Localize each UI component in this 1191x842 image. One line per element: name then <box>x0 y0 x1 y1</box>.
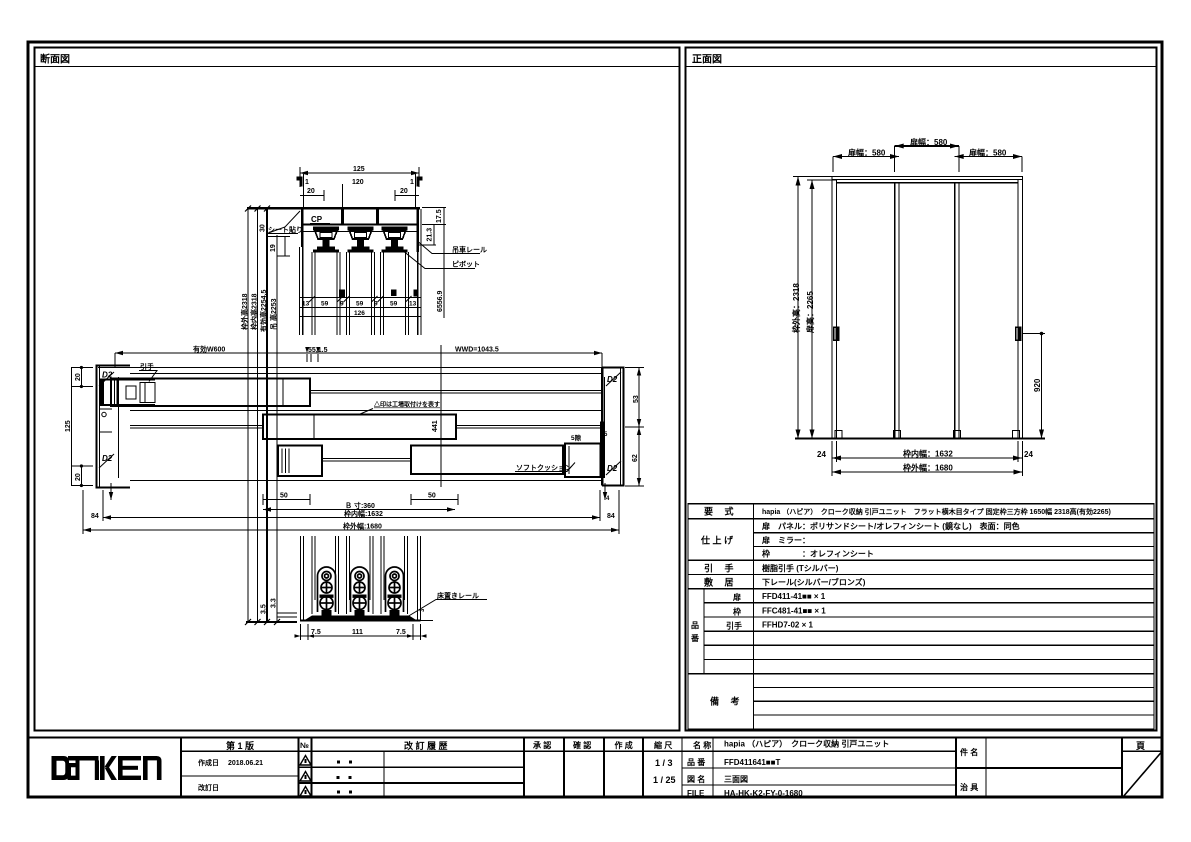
mullion 2 double line <box>954 183 956 439</box>
revision triangle 2 <box>300 772 311 782</box>
dim 1680 <box>83 529 619 531</box>
door 1 end cap line <box>282 379 284 407</box>
svg-text:図 名: 図 名 <box>687 774 705 784</box>
center section line <box>440 345 442 487</box>
door 3 guide box <box>278 446 322 477</box>
door panel 2 top cap <box>348 250 374 253</box>
svg-text:改 訂 履 歴: 改 訂 履 歴 <box>404 740 448 751</box>
svg-text:50: 50 <box>280 493 288 500</box>
svg-text:有効高2254.5: 有効高2254.5 <box>259 289 268 332</box>
right side dim line 53/62 <box>625 367 644 486</box>
svg-text:枠外高2318: 枠外高2318 <box>240 293 249 330</box>
bottom wall line <box>130 480 602 482</box>
top right dim line 580 <box>955 156 1022 158</box>
svg-text:84: 84 <box>91 513 99 520</box>
svg-text:6556.9: 6556.9 <box>437 290 444 312</box>
door frame outer <box>832 177 1023 439</box>
door panel 3 verticals <box>380 536 382 614</box>
stub extension lines above plate <box>342 184 344 207</box>
svg-text:20: 20 <box>307 188 315 195</box>
track lines row2 <box>130 425 263 427</box>
svg-text:樹脂引手 (Tシルバー): 樹脂引手 (Tシルバー) <box>762 563 839 573</box>
svg-text:扉高：2265: 扉高：2265 <box>805 291 815 334</box>
svg-text:3.5: 3.5 <box>261 604 268 614</box>
door 1 left end dark details <box>100 379 104 407</box>
svg-text:441: 441 <box>432 420 439 432</box>
top center dim line 580 <box>895 145 959 147</box>
door panel 2 verticals <box>347 252 375 335</box>
name column rows <box>682 767 956 769</box>
svg-text:FILE: FILE <box>687 789 705 798</box>
svg-text:件 名: 件 名 <box>960 747 978 757</box>
head plate <box>247 207 420 210</box>
svg-text:HA-HK-K2-FY-0-1680: HA-HK-K2-FY-0-1680 <box>724 789 803 798</box>
floor line right stub <box>421 620 434 622</box>
pocket divider line <box>130 410 602 412</box>
floor line under rail <box>300 620 421 622</box>
svg-text:有効W600: 有効W600 <box>193 345 225 354</box>
svg-text:ソフトクッション: ソフトクッション <box>516 463 572 472</box>
arrows dim125 <box>300 171 308 175</box>
svg-text:30: 30 <box>260 224 267 232</box>
track wall lower continuations <box>302 247 304 335</box>
svg-text:1: 1 <box>305 179 309 186</box>
svg-text:№: № <box>300 741 309 750</box>
bottom dim rows of head section <box>299 296 420 317</box>
svg-text:59: 59 <box>390 301 398 308</box>
door panel 1 verticals <box>312 252 340 335</box>
svg-text:20: 20 <box>400 188 408 195</box>
page cell diagonal <box>1123 752 1162 798</box>
svg-text:13: 13 <box>409 301 417 308</box>
top dim line <box>115 352 602 354</box>
dim arrows bottom <box>832 456 841 461</box>
svg-text:CP: CP <box>311 215 323 224</box>
svg-text:改訂日: 改訂日 <box>198 783 219 792</box>
height dim extension line 3 <box>266 208 268 622</box>
small dim line at 285 <box>267 237 290 257</box>
receiver dark edge <box>600 422 604 445</box>
spec table hinban rows <box>704 602 1154 604</box>
svg-text:△印は工場取付けを表す: △印は工場取付けを表す <box>373 401 440 409</box>
svg-text:治 具: 治 具 <box>960 782 978 792</box>
svg-text:FFC481-41■■ × 1: FFC481-41■■ × 1 <box>762 606 826 615</box>
foot guide 3 <box>954 431 961 439</box>
left height dim lines <box>797 177 799 439</box>
svg-text:9: 9 <box>340 301 344 308</box>
track right wall <box>417 209 420 252</box>
svg-text:枠内幅：1632: 枠内幅：1632 <box>902 449 953 459</box>
jamb left pair <box>300 536 302 620</box>
svg-text:扉幅：580: 扉幅：580 <box>968 148 1007 158</box>
right 920 dim line <box>1041 334 1043 439</box>
svg-text:Ｂ 寸:360: Ｂ 寸:360 <box>345 501 375 510</box>
svg-text:53: 53 <box>633 395 640 403</box>
door 3 plan <box>411 446 563 475</box>
handle left panel <box>833 327 840 342</box>
floor datum line left <box>246 621 297 623</box>
svg-text:扉幅：580: 扉幅：580 <box>909 137 948 147</box>
leader 吊車レール <box>419 242 481 254</box>
dim 120 ticks <box>303 174 305 207</box>
svg-text:品: 品 <box>691 621 699 630</box>
track rail profile lines <box>303 224 416 226</box>
height dim extension line 2 <box>257 208 259 622</box>
inner frame right panel (front view) <box>686 48 1157 731</box>
svg-text:引手: 引手 <box>726 621 742 631</box>
dim tick marks top <box>245 206 280 626</box>
DAIKEN logo <box>52 756 162 780</box>
bottom 1680 dim line <box>832 471 1023 473</box>
svg-text:番: 番 <box>690 633 700 643</box>
door 1 plan <box>111 379 310 407</box>
svg-text:21.3: 21.3 <box>427 228 434 242</box>
svg-text:D2: D2 <box>607 464 618 473</box>
svg-text:仕 上 げ: 仕 上 げ <box>700 535 734 546</box>
spec table remark rows <box>754 686 1155 688</box>
dim 20 right <box>395 195 419 197</box>
svg-text:20: 20 <box>75 373 82 381</box>
soft close receiver box <box>565 444 601 478</box>
svg-text:hapia （ハピア） クローク収納 引戸ユニット フラット: hapia （ハピア） クローク収納 引戸ユニット フラット横木目タイプ 固定枠… <box>762 507 1111 516</box>
svg-text:19: 19 <box>270 244 277 252</box>
svg-text:7.5: 7.5 <box>311 629 321 636</box>
bottom guide assembly 3 <box>386 567 404 616</box>
svg-text:断面図: 断面図 <box>40 53 70 66</box>
svg-text:吊車レール: 吊車レール <box>452 245 487 254</box>
track right outer extension line <box>420 209 422 335</box>
edition cell row lines <box>181 775 299 777</box>
svg-text:名 称: 名 称 <box>693 740 711 750</box>
door panel 3 verticals <box>381 252 409 335</box>
bottom dim line <box>301 624 421 640</box>
floor line <box>795 438 1045 440</box>
sheet label シート貼り <box>267 211 300 234</box>
svg-text:シート貼り: シート貼り <box>268 225 303 234</box>
track divider stub 2 <box>376 209 379 225</box>
spec table outline <box>688 504 1154 729</box>
svg-text:13: 13 <box>302 301 310 308</box>
wall clip right <box>417 177 423 187</box>
rail leader and label <box>407 600 487 618</box>
track lines row1 <box>310 390 602 392</box>
dim 1632 <box>103 517 600 519</box>
svg-text:55,1.5: 55,1.5 <box>308 347 328 354</box>
revision triangle 1 <box>300 756 311 766</box>
svg-text:D2: D2 <box>102 454 113 463</box>
svg-text:24: 24 <box>817 450 826 459</box>
svg-text:要 式: 要 式 <box>704 506 734 517</box>
svg-text:1 / 3: 1 / 3 <box>655 758 673 768</box>
leader ピボット <box>397 246 475 269</box>
svg-text:吊 高2253: 吊 高2253 <box>269 298 278 330</box>
right panel header line <box>686 66 1157 68</box>
svg-text:枠外幅:1680: 枠外幅:1680 <box>343 522 382 531</box>
door 1 handle recess <box>140 383 155 403</box>
svg-text:20: 20 <box>75 473 82 481</box>
dim 20 left <box>300 195 324 197</box>
svg-text:正面図: 正面図 <box>692 54 722 66</box>
inner frame left panel (section view) <box>35 48 680 731</box>
track left wall <box>301 209 304 247</box>
dim 50 right <box>411 499 458 501</box>
door frame head line 3 <box>837 182 1019 184</box>
svg-text:920: 920 <box>1033 378 1042 392</box>
dim 50 left <box>263 499 310 501</box>
track lines row3 <box>322 458 411 460</box>
svg-text:126: 126 <box>354 310 365 317</box>
svg-text:7.5: 7.5 <box>396 629 406 636</box>
svg-text:3.3: 3.3 <box>271 598 278 608</box>
svg-text:2018.06.21: 2018.06.21 <box>228 760 263 767</box>
revision rows <box>299 766 525 768</box>
dim arrows heights <box>796 177 801 186</box>
svg-text:枠内高2318: 枠内高2318 <box>250 293 259 330</box>
dim arrows top dims <box>895 144 904 149</box>
dim 17.5 right <box>419 208 447 319</box>
svg-text:59: 59 <box>321 301 329 308</box>
svg-text:扉 ミラー：: 扉 ミラー： <box>761 535 810 545</box>
wall top line <box>98 367 602 369</box>
break ticks 55,1.5 <box>306 354 308 362</box>
svg-text:下レール(シルバー/ブロンズ): 下レール(シルバー/ブロンズ) <box>762 577 866 587</box>
door frame inner left vertical <box>836 180 838 439</box>
left jamb <box>97 366 131 488</box>
bottom guide assembly 2 <box>351 567 369 616</box>
svg-text:枠内幅:1632: 枠内幅:1632 <box>344 509 383 518</box>
extension arrows down <box>110 483 112 500</box>
door 2 plan <box>263 415 456 440</box>
svg-text:1: 1 <box>410 179 414 186</box>
hanger roller assembly 2 <box>348 227 374 250</box>
door frame head line 2 <box>832 179 1023 181</box>
spec table hinban sub divider <box>703 589 705 674</box>
jamb right pair <box>417 536 419 620</box>
svg-text:三面図: 三面図 <box>724 775 748 784</box>
svg-text:扉幅：580: 扉幅：580 <box>847 148 886 158</box>
floor rail bar <box>304 616 417 621</box>
svg-text:引 手: 引 手 <box>704 563 734 574</box>
pivot blocks on panel edges <box>339 290 419 298</box>
title block outline <box>28 738 1162 798</box>
handle right panel <box>1015 327 1022 342</box>
svg-text:hapia （ハピア） クローク収納 引戸ユニット: hapia （ハピア） クローク収納 引戸ユニット <box>724 739 889 749</box>
svg-text:59: 59 <box>356 301 364 308</box>
svg-text:作 成: 作 成 <box>615 740 633 750</box>
svg-text:敷 居: 敷 居 <box>704 577 734 588</box>
svg-text:FFD411641■■T: FFD411641■■T <box>724 758 780 767</box>
foot guide 4 <box>1013 431 1020 439</box>
svg-text:84: 84 <box>607 513 615 520</box>
svg-text:扉: 扉 <box>732 592 741 602</box>
svg-text:5隙: 5隙 <box>571 433 582 442</box>
svg-text:床置きレール: 床置きレール <box>437 591 479 600</box>
foot guide 2 <box>894 431 901 439</box>
svg-text:確 認: 確 認 <box>573 740 591 750</box>
mullion 1 double line <box>894 183 896 439</box>
svg-text:120: 120 <box>352 179 364 186</box>
svg-text:24: 24 <box>1024 450 1033 459</box>
foot guide 1 <box>835 431 842 439</box>
door panel 3 top cap <box>382 250 408 253</box>
spec table row lines full width <box>688 518 1154 520</box>
track divider stub 1 <box>341 209 344 225</box>
bottom guide assembly 1 <box>318 567 336 616</box>
svg-text:FFD411-41■■ × 1: FFD411-41■■ × 1 <box>762 592 826 601</box>
svg-text:FFHD7-02 × 1: FFHD7-02 × 1 <box>762 621 813 630</box>
track left outer extension line <box>299 247 301 335</box>
top left dim line 580 <box>833 156 899 158</box>
bottom dims of plan <box>83 483 619 534</box>
svg-text:扉 パネル：ポリサンドシート/オレフィンシート (鏡なし): 扉 パネル：ポリサンドシート/オレフィンシート (鏡なし) 表面：同色 <box>761 521 1020 531</box>
revision row dots <box>337 761 353 794</box>
svg-text:縮 尺: 縮 尺 <box>654 740 672 750</box>
height dim extension line 4 <box>276 235 278 622</box>
svg-text:品 番: 品 番 <box>687 757 706 767</box>
svg-text:9: 9 <box>374 301 378 308</box>
door 1 inner small box <box>126 386 136 399</box>
svg-text:125: 125 <box>65 420 72 432</box>
svg-text:枠 ：オレフィンシート: 枠 ：オレフィンシート <box>761 549 874 559</box>
svg-text:62: 62 <box>632 454 639 462</box>
svg-text:125: 125 <box>353 166 365 173</box>
right info rows <box>956 767 1122 769</box>
svg-text:1 / 25: 1 / 25 <box>653 775 676 785</box>
left panel header line <box>35 66 680 68</box>
svg-text:第 1 版: 第 1 版 <box>226 740 254 751</box>
door frame inner right vertical <box>1017 180 1019 439</box>
svg-text:ピボット: ピボット <box>452 260 480 269</box>
svg-text:WWD=1043.5: WWD=1043.5 <box>455 347 499 354</box>
title block vertical dividers <box>180 737 182 798</box>
hanger roller assembly 3 <box>382 227 408 250</box>
dim 360 <box>263 509 455 511</box>
svg-text:111: 111 <box>352 629 363 636</box>
svg-text:枠外高：2318: 枠外高：2318 <box>791 283 801 334</box>
svg-text:引手: 引手 <box>140 362 154 371</box>
height dim extension line 1 <box>247 208 249 622</box>
bottom 1632 dim line <box>832 457 1022 459</box>
revision triangle 3 <box>300 787 311 797</box>
header underline row <box>181 750 956 752</box>
right jamb <box>602 368 624 486</box>
svg-text:D2: D2 <box>607 375 618 384</box>
svg-text:50: 50 <box>428 493 436 500</box>
svg-text:備 考: 備 考 <box>710 696 740 707</box>
spec table label column divider <box>753 504 755 729</box>
track upper line <box>130 373 602 375</box>
left dim chain 20/125/20 <box>72 367 93 486</box>
door panel 1 top cap <box>313 250 339 253</box>
door panel 2 verticals <box>346 536 348 614</box>
svg-text:承 認: 承 認 <box>533 740 551 750</box>
svg-text:頁: 頁 <box>1136 741 1145 751</box>
hanger roller assembly 1 <box>313 227 339 250</box>
svg-text:枠外幅：1680: 枠外幅：1680 <box>902 463 953 473</box>
dim 125 line <box>300 172 419 174</box>
svg-text:17.5: 17.5 <box>436 209 443 223</box>
svg-text:作成日: 作成日 <box>198 758 219 767</box>
wall clip left <box>297 177 303 187</box>
door panel 1 verticals <box>311 536 313 614</box>
svg-text:枠: 枠 <box>732 607 741 617</box>
